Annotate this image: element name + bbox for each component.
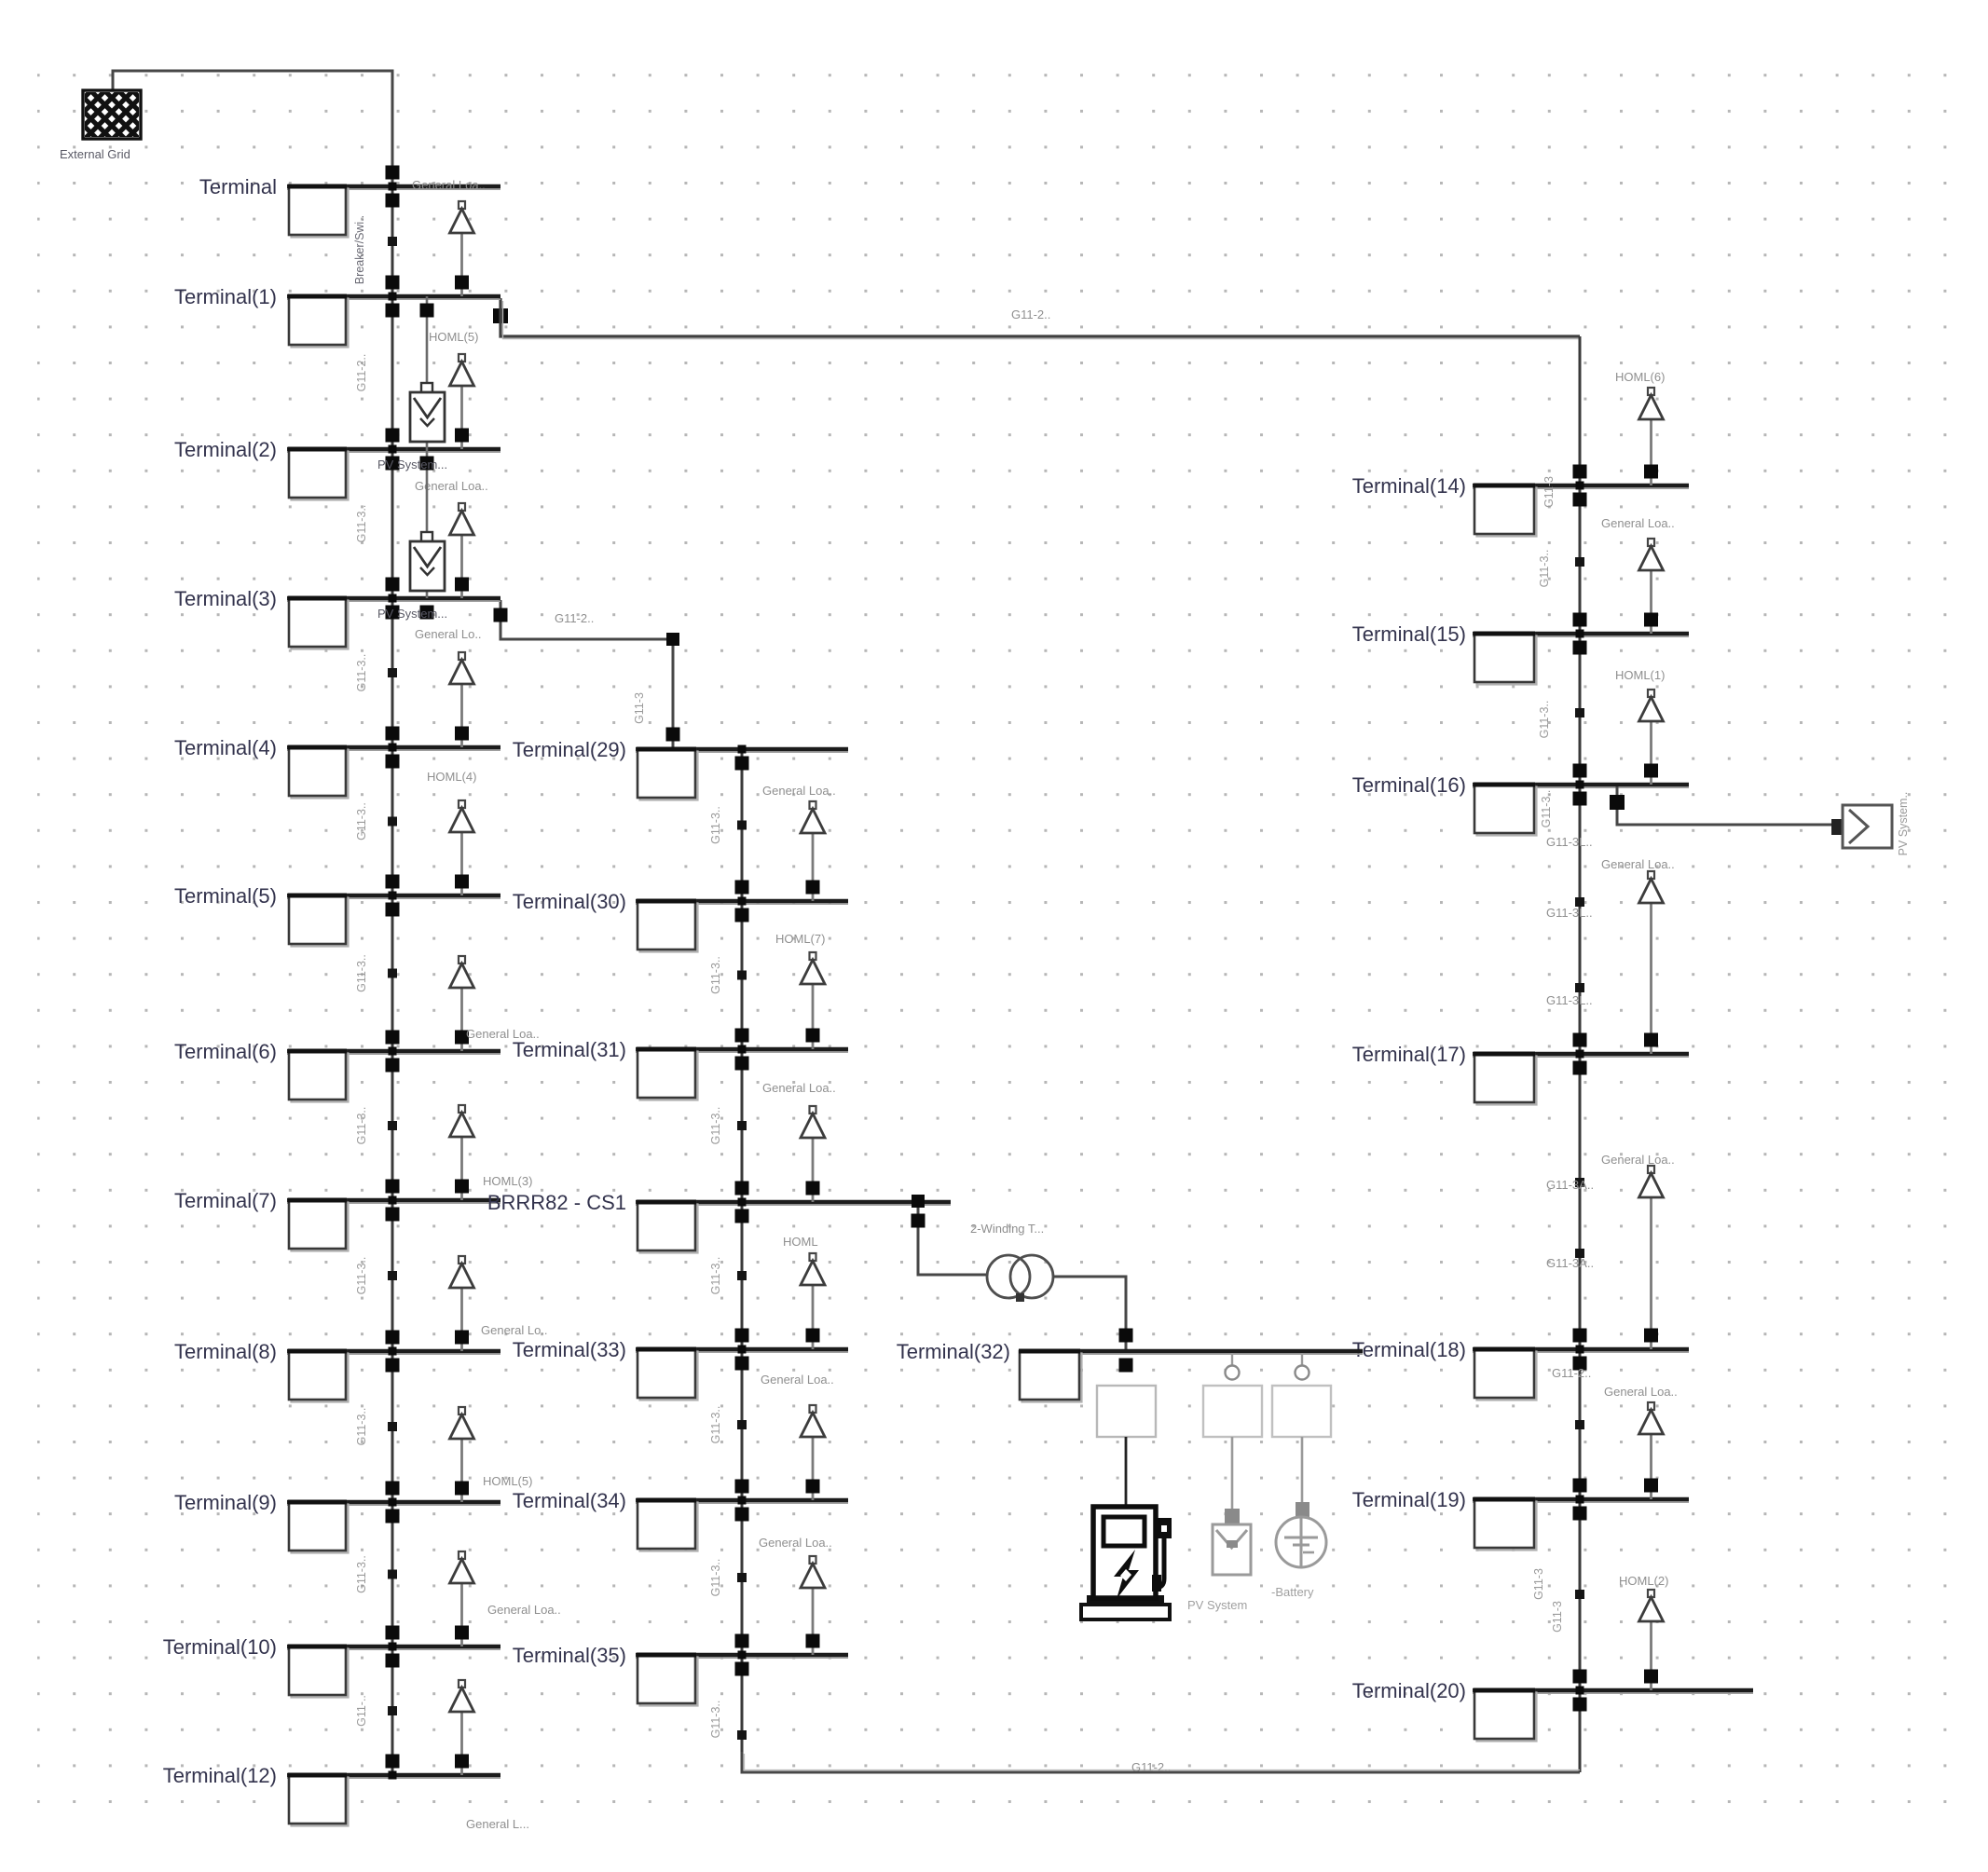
- svg-text:General Loa..: General Loa..: [1601, 857, 1675, 871]
- svg-text:G11-3L..: G11-3L..: [1546, 906, 1593, 920]
- general load (middle column): [801, 1106, 825, 1202]
- terminal BRRR82 - CS1 (middle busbar): [487, 1182, 951, 1253]
- svg-text:-Battery: -Battery: [1271, 1585, 1314, 1599]
- svg-text:HOML: HOML: [783, 1235, 818, 1249]
- svg-text:General Loa..: General Loa..: [1601, 516, 1675, 530]
- svg-text:HOML(1): HOML(1): [1615, 668, 1665, 682]
- svg-text:G11-3..: G11-3..: [355, 1555, 368, 1593]
- wire: right main feeder: [1579, 336, 1582, 1772]
- general load (middle column): [801, 1405, 825, 1500]
- svg-text:General Loa..: General Loa..: [487, 1603, 561, 1617]
- terminal Terminal(34) (middle busbar): [513, 1480, 848, 1551]
- load labels (left column): [412, 178, 561, 1831]
- svg-text:General Loa..: General Loa..: [1601, 1153, 1675, 1167]
- svg-text:G11-3L..: G11-3L..: [1546, 993, 1593, 1007]
- svg-text:Terminal(4): Terminal(4): [174, 736, 277, 759]
- terminal Terminal(12) (left busbar): [163, 1755, 500, 1826]
- terminal Terminal(8) (left busbar): [174, 1331, 500, 1402]
- terminal Terminal (left busbar): [199, 166, 500, 238]
- svg-text:G11-3..: G11-3..: [709, 1257, 722, 1295]
- wire junction marks on middle feeder: [737, 821, 747, 1741]
- svg-text:Terminal(16): Terminal(16): [1352, 773, 1466, 797]
- svg-text:G11-3..: G11-3..: [1538, 550, 1551, 588]
- svg-text:G11-3..: G11-3..: [709, 1406, 722, 1444]
- general load at Terminal(10): [450, 1551, 474, 1647]
- svg-text:G11-3..: G11-3..: [709, 956, 722, 994]
- svg-text:HOML(5): HOML(5): [483, 1474, 532, 1488]
- general load at Terminal(7): [450, 1105, 474, 1200]
- svg-text:G11-3..: G11-3..: [709, 1701, 722, 1739]
- svg-text:HOML(2): HOML(2): [1619, 1574, 1668, 1588]
- label External Grid: [60, 147, 130, 161]
- svg-text:G11-3: G11-3: [1551, 1601, 1564, 1633]
- rotated cable labels middle feeder: [633, 692, 722, 1738]
- svg-text:G11-3..: G11-3..: [355, 505, 368, 543]
- junction: branch corner to Terminal(29): [494, 608, 680, 742]
- general load (right column): [1639, 1402, 1664, 1499]
- general load (right column): [1639, 871, 1664, 1054]
- PV system (rooftop, dark): [410, 296, 445, 471]
- terminal Terminal(6) (left busbar): [174, 1031, 500, 1102]
- PV system at Terminal(16): [1831, 805, 1892, 848]
- terminal Terminal(1) (left busbar): [174, 276, 500, 348]
- svg-text:G11-3: G11-3: [1532, 1568, 1545, 1600]
- svg-text:HOML(6): HOML(6): [1615, 370, 1665, 384]
- svg-text:General L...: General L...: [466, 1817, 529, 1831]
- label G11-2 on branch: [555, 611, 594, 625]
- svg-text:G11-2..: G11-2..: [1011, 307, 1050, 321]
- general load at Terminal(2): [450, 354, 474, 449]
- battery at Terminal(32) (gray): [1276, 1502, 1326, 1567]
- svg-text:G11-3A..: G11-3A..: [1546, 1256, 1594, 1270]
- svg-text:G11-3..: G11-3..: [355, 1408, 368, 1446]
- load labels (right column): [1601, 370, 1678, 1588]
- terminal Terminal(17) (right busbar): [1352, 1033, 1689, 1105]
- svg-text:Terminal(20): Terminal(20): [1352, 1679, 1466, 1702]
- svg-text:General Loa..: General Loa..: [412, 178, 486, 192]
- svg-text:Terminal(9): Terminal(9): [174, 1491, 277, 1514]
- label PV System (upper): [377, 458, 447, 471]
- wire: BRRR82-CS1 to 2-winding transformer: [912, 1195, 987, 1275]
- svg-text:G11-3..: G11-3..: [355, 654, 368, 692]
- svg-text:Terminal(1): Terminal(1): [174, 285, 277, 308]
- svg-text:G11-3..: G11-3..: [1540, 790, 1553, 828]
- external grid source: [83, 90, 141, 139]
- label Battery (gray): [1271, 1585, 1314, 1599]
- terminal Terminal(4) (left busbar): [174, 727, 500, 799]
- svg-text:Terminal(17): Terminal(17): [1352, 1043, 1466, 1066]
- terminal Terminal(30) (middle busbar): [513, 881, 848, 952]
- svg-text:G11-3..: G11-3..: [709, 806, 722, 844]
- svg-text:PV System...: PV System...: [377, 458, 447, 471]
- svg-text:Terminal(15): Terminal(15): [1352, 622, 1466, 646]
- wire: middle feeder below Terminal(29): [741, 749, 744, 1772]
- svg-text:Terminal(6): Terminal(6): [174, 1040, 277, 1063]
- svg-text:G11-3..: G11-3..: [1538, 701, 1551, 739]
- svg-text:General Loa..: General Loa..: [762, 784, 836, 798]
- general load at Terminal(8): [450, 1256, 474, 1351]
- svg-text:PV System...: PV System...: [377, 607, 447, 621]
- 2-winding transformer: [987, 1255, 1053, 1302]
- svg-text:2-Winding T...: 2-Winding T...: [970, 1222, 1044, 1236]
- svg-text:Terminal(30): Terminal(30): [513, 890, 626, 913]
- terminal Terminal(35) (middle busbar): [513, 1634, 848, 1706]
- general load at Terminal(9): [450, 1407, 474, 1502]
- svg-text:G11-3L..: G11-3L..: [1546, 835, 1593, 849]
- general load at Terminal(12): [450, 1680, 474, 1775]
- terminal Terminal(5) (left busbar): [174, 875, 500, 947]
- switch + cubicle (PV feeder): [1203, 1353, 1262, 1509]
- svg-text:HOML(5): HOML(5): [429, 330, 478, 344]
- svg-text:G11-..: G11-..: [355, 1695, 368, 1727]
- svg-text:Terminal(2): Terminal(2): [174, 438, 277, 461]
- terminal Terminal(33) (middle busbar): [513, 1329, 848, 1401]
- label G11-2 on top long cable: [1011, 307, 1050, 321]
- label PV System (gray): [1187, 1598, 1247, 1612]
- terminal Terminal(15) (right busbar): [1352, 613, 1689, 685]
- general load (middle column): [801, 1253, 825, 1349]
- svg-text:G11-3: G11-3: [633, 692, 646, 724]
- wire: bottom tie cable G11-2 between middle and right feeders: [742, 1752, 1580, 1772]
- wire: left main feeder (Line Breaker/Switch chain): [391, 186, 394, 1775]
- svg-text:Terminal(32): Terminal(32): [897, 1340, 1010, 1363]
- general load (right column): [1639, 539, 1664, 634]
- svg-text:Terminal(29): Terminal(29): [513, 738, 626, 761]
- terminal Terminal(29) (middle busbar): [513, 738, 848, 800]
- svg-text:External Grid: External Grid: [60, 147, 130, 161]
- general load at Terminal(6): [450, 956, 474, 1051]
- terminal Terminal(9) (left busbar): [174, 1482, 500, 1553]
- wire junction marks on right feeder: [1575, 557, 1584, 1599]
- svg-text:G11-3..: G11-3..: [355, 802, 368, 840]
- wire: Terminal(16) to PV system: [1610, 786, 1838, 825]
- svg-text:G11-3: G11-3: [1542, 476, 1556, 508]
- svg-text:Terminal(10): Terminal(10): [163, 1635, 277, 1659]
- svg-text:Terminal(18): Terminal(18): [1352, 1338, 1466, 1361]
- svg-text:Breaker/Swi..: Breaker/Swi..: [353, 215, 366, 284]
- svg-text:General Lo..: General Lo..: [415, 627, 482, 641]
- switch + cubicle (battery feeder): [1272, 1353, 1331, 1502]
- svg-text:General Loa..: General Loa..: [761, 1373, 834, 1387]
- svg-text:Terminal(35): Terminal(35): [513, 1644, 626, 1667]
- cubicle (EV charging station feeder): [1097, 1386, 1156, 1507]
- label 2-Winding T...: [970, 1222, 1044, 1236]
- terminal Terminal(16) (right busbar): [1352, 764, 1689, 836]
- svg-text:HOML(3): HOML(3): [483, 1174, 532, 1188]
- svg-text:Terminal(3): Terminal(3): [174, 587, 277, 610]
- terminal Terminal(31) (middle busbar): [513, 1029, 848, 1100]
- svg-text:Terminal(33): Terminal(33): [513, 1338, 626, 1361]
- general load at Terminal(3): [450, 503, 474, 598]
- svg-text:G11-2..: G11-2..: [1131, 1760, 1171, 1774]
- PV system at Terminal(32) (gray): [1213, 1509, 1251, 1575]
- terminal Terminal(19) (right busbar): [1352, 1479, 1689, 1551]
- PV system (rooftop, dark): [410, 449, 445, 620]
- general load (middle column): [801, 801, 825, 901]
- svg-text:Terminal(31): Terminal(31): [513, 1038, 626, 1061]
- terminal Terminal(20) (right busbar): [1352, 1670, 1753, 1742]
- EV charging station: [1081, 1507, 1172, 1619]
- svg-text:HOML(7): HOML(7): [775, 932, 825, 946]
- svg-text:G11-3A..: G11-3A..: [1546, 1178, 1594, 1192]
- label PV System (lower): [377, 607, 447, 621]
- svg-text:G11-3..: G11-3..: [709, 1107, 722, 1145]
- terminal Terminal(2) (left busbar): [174, 429, 500, 500]
- svg-text:General Loa..: General Loa..: [759, 1536, 832, 1550]
- svg-text:G11-2..: G11-2..: [355, 354, 368, 392]
- terminal Terminal(3) (left busbar): [174, 578, 500, 649]
- svg-text:G11-3..: G11-3..: [355, 1257, 368, 1295]
- svg-text:Terminal(7): Terminal(7): [174, 1189, 277, 1212]
- svg-text:G11-2..: G11-2..: [555, 611, 594, 625]
- load labels (middle column): [759, 784, 836, 1550]
- cable labels G11-3L (right feeder parallel cables): [1546, 835, 1594, 1380]
- label G11-2 on bottom tie cable: [1131, 1760, 1171, 1774]
- general load (right column): [1639, 388, 1664, 485]
- svg-text:Terminal(12): Terminal(12): [163, 1764, 277, 1787]
- svg-text:General Loa..: General Loa..: [1604, 1385, 1678, 1399]
- general load (right column): [1639, 1166, 1664, 1349]
- svg-text:General Loa..: General Loa..: [762, 1081, 836, 1095]
- terminal Terminal(7) (left busbar): [174, 1180, 500, 1251]
- wire: external grid to main feeder: [113, 71, 392, 186]
- svg-text:Terminal(34): Terminal(34): [513, 1489, 626, 1512]
- svg-text:General Lo..: General Lo..: [481, 1323, 548, 1337]
- wire junction marks on left feeder: [388, 237, 397, 1715]
- svg-text:BRRR82 - CS1: BRRR82 - CS1: [487, 1191, 626, 1214]
- general load (right column): [1639, 690, 1664, 785]
- terminal Terminal(14) (right busbar): [1352, 465, 1689, 537]
- svg-text:PV System: PV System: [1187, 1598, 1247, 1612]
- svg-text:G11-3..: G11-3..: [709, 1559, 722, 1597]
- general load (right column): [1639, 1590, 1664, 1690]
- wire: long cable G11-2 from Terminal(1) to Terminal(14) feeder: [493, 308, 508, 323]
- svg-text:HOML(4): HOML(4): [427, 770, 476, 784]
- svg-text:Terminal(8): Terminal(8): [174, 1340, 277, 1363]
- svg-text:Terminal(14): Terminal(14): [1352, 474, 1466, 498]
- svg-text:G11-3..: G11-3..: [355, 954, 368, 992]
- terminal Terminal(32) busbar: [897, 1340, 1363, 1402]
- svg-text:Terminal(5): Terminal(5): [174, 884, 277, 908]
- svg-text:G11-3..: G11-3..: [355, 1107, 368, 1145]
- rotated cable name labels along left feeder: [353, 215, 368, 1727]
- svg-text:Terminal: Terminal: [199, 175, 277, 198]
- wire: transformer to Terminal(32): [1053, 1277, 1133, 1373]
- general load at Terminal(1): [450, 201, 474, 296]
- general load at Terminal(4): [450, 652, 474, 747]
- general load at Terminal(5): [450, 800, 474, 895]
- svg-text:Terminal(19): Terminal(19): [1352, 1488, 1466, 1511]
- rotated cable labels right feeder: [1532, 476, 1564, 1633]
- wire: branch G11-2 from Terminal(3) to Terminal(29): [500, 600, 673, 749]
- label PV System (rotated, right): [1897, 792, 1910, 856]
- terminal Terminal(10) (left busbar): [163, 1626, 500, 1698]
- svg-text:G11-2..: G11-2..: [1552, 1366, 1591, 1380]
- general load (middle column): [801, 952, 825, 1049]
- terminal Terminal(18) (right busbar): [1352, 1329, 1689, 1401]
- general load (middle column): [801, 1556, 825, 1655]
- svg-text:PV System..: PV System..: [1897, 792, 1910, 856]
